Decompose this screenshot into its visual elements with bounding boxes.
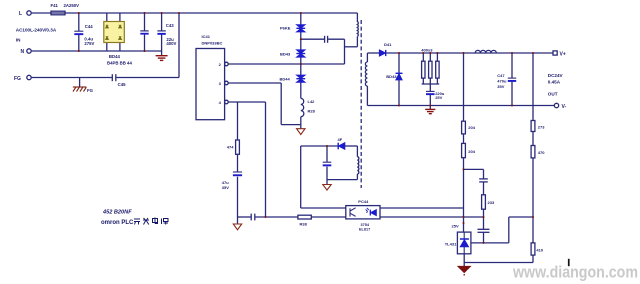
load resistors x3 <box>422 61 425 78</box>
svg-text:F41: F41 <box>51 3 59 8</box>
resistor right 470 <box>531 146 535 158</box>
capacitor film plates <box>140 31 148 35</box>
resistor right 410 <box>531 243 535 255</box>
svg-text:2: 2 <box>219 62 222 67</box>
svg-text:4: 4 <box>219 100 222 105</box>
ground stub under feedback line <box>237 217 239 224</box>
resistor R38 <box>298 215 311 219</box>
wire FG rail <box>32 77 112 79</box>
svg-text:275V: 275V <box>84 41 94 46</box>
capacitor C43 wires <box>161 13 163 31</box>
wire pin4 <box>228 101 265 103</box>
svg-text:TL431: TL431 <box>445 242 457 247</box>
capacitor C47 plates <box>508 78 516 82</box>
svg-text:4F: 4F <box>338 137 343 142</box>
wire L to fuse <box>32 12 52 14</box>
svg-text:BD44: BD44 <box>280 77 291 82</box>
svg-text:omron PLC: omron PLC <box>101 220 134 226</box>
V+ rail <box>367 52 379 54</box>
black mark <box>568 259 570 266</box>
ground triangle TL431 (solid) <box>458 266 470 272</box>
resistor R44 wires <box>237 102 239 140</box>
comp branch wires <box>464 168 484 170</box>
svg-text:2A250V: 2A250V <box>64 3 80 8</box>
resistor divider R2 <box>462 143 466 157</box>
capacitor 220u plates <box>426 91 435 95</box>
svg-text:PC44: PC44 <box>358 199 369 204</box>
terminal FG <box>27 75 31 79</box>
svg-text:C45: C45 <box>118 82 126 87</box>
resistor right 273 <box>531 121 535 132</box>
capacitor aux plates <box>323 162 332 166</box>
diode 4F (aux) <box>338 143 345 150</box>
transformer T1 primary <box>356 13 358 22</box>
TVS P6KE <box>296 25 305 32</box>
capacitor C47 wires <box>511 53 513 78</box>
load resistors x3 wires <box>422 53 424 61</box>
transformer secondary <box>366 53 368 62</box>
wire FG rail right <box>116 77 179 79</box>
svg-text:BD44: BD44 <box>109 54 121 59</box>
aux circuit wires <box>301 145 338 147</box>
bottom return wire <box>464 262 533 264</box>
capacitor series on feedback line <box>250 214 252 221</box>
capacitor C45 (Y-cap on FG line) <box>111 74 113 81</box>
svg-text:D41: D41 <box>384 42 392 47</box>
zener D43 (output) <box>396 73 403 80</box>
svg-text:233: 233 <box>488 200 495 205</box>
svg-text:P6KE: P6KE <box>280 26 291 31</box>
opto wires left <box>301 207 346 209</box>
svg-text:0.45A: 0.45A <box>548 80 561 85</box>
bridge BD44 pins <box>106 13 108 22</box>
zener D43 wires <box>398 53 400 73</box>
svg-text:FG: FG <box>87 88 94 93</box>
right column wires <box>532 53 534 121</box>
TL431 internals <box>460 232 469 254</box>
wire N rail <box>32 50 162 52</box>
svg-text:IN: IN <box>16 38 21 43</box>
tap wire to primary <box>345 46 358 48</box>
optocoupler PC44 box <box>346 206 380 219</box>
capacitor 220u wires <box>429 84 431 91</box>
svg-text:EL817: EL817 <box>359 228 370 232</box>
ground earth (220u) <box>425 109 435 113</box>
capacitor clamp <box>324 36 326 43</box>
pin 2 circle <box>225 62 229 66</box>
wire feedback vertical from pin4 <box>265 102 267 217</box>
svg-text:R28: R28 <box>308 108 316 113</box>
svg-text:DC24V: DC24V <box>548 73 564 78</box>
svg-text:FG: FG <box>14 76 21 82</box>
svg-text:OUT: OUT <box>548 92 558 97</box>
transformer core <box>360 20 362 188</box>
svg-text:474: 474 <box>227 145 234 150</box>
diode BD43 (clamp) <box>296 50 305 57</box>
wire FG ground stub <box>79 78 81 87</box>
aux cap wires <box>326 146 328 162</box>
V- rail <box>367 105 554 107</box>
resistor 233 <box>482 195 486 209</box>
ground earth (C43) <box>156 56 168 61</box>
svg-text:C44: C44 <box>85 24 93 29</box>
fuse F41 <box>51 11 65 15</box>
svg-text:204: 204 <box>468 149 475 154</box>
svg-text:204: 204 <box>468 125 475 130</box>
opto internals <box>350 208 356 217</box>
ground triangle (sense) <box>297 129 305 135</box>
svg-text:IC41: IC41 <box>202 34 211 39</box>
TL431 bottom wire <box>463 254 465 266</box>
svg-text:400x3: 400x3 <box>421 48 433 53</box>
svg-text:R38: R38 <box>300 222 308 227</box>
svg-text:N: N <box>21 49 25 55</box>
svg-text:C43: C43 <box>166 23 174 28</box>
terminal L <box>27 11 31 15</box>
svg-text:C47: C47 <box>497 73 505 78</box>
ref wire <box>471 242 509 244</box>
svg-text:www.diangon.com: www.diangon.com <box>512 263 638 282</box>
svg-text:35V: 35V <box>497 84 504 89</box>
capacitor C44 wires <box>78 13 80 31</box>
capacitor C43 plates <box>157 31 165 35</box>
node column clamp diodes <box>300 13 302 25</box>
comp cap 2 <box>478 228 490 230</box>
bridge rectifier BD44 <box>104 22 125 43</box>
ground triangle (aux) <box>323 185 331 191</box>
svg-text:BD43: BD43 <box>280 51 291 56</box>
clamp right vertical <box>344 39 346 64</box>
capacitor 47u plates <box>233 172 242 176</box>
svg-text:273: 273 <box>538 125 545 130</box>
comp cap 2 wires <box>483 217 485 229</box>
diode BD44 (clamp) <box>296 75 305 82</box>
svg-text:DNP033BC: DNP033BC <box>202 40 223 45</box>
comp cap 1 <box>479 178 488 180</box>
terminal V+ <box>553 51 557 55</box>
svg-text:470u: 470u <box>497 79 507 84</box>
pin 4 circle <box>225 100 229 104</box>
wire vertical top rail to FG <box>178 13 180 78</box>
clamp top wire with cap gap <box>301 38 324 40</box>
filter inductor L <box>475 50 496 53</box>
TL431 box <box>457 232 471 254</box>
svg-text:400V: 400V <box>166 41 176 46</box>
terminal N <box>27 49 31 53</box>
terminal V- <box>554 103 558 107</box>
svg-text:V-: V- <box>562 104 567 110</box>
capacitor C44 plates <box>74 31 83 35</box>
svg-text:BD43: BD43 <box>386 74 397 79</box>
svg-text:3: 3 <box>219 81 222 86</box>
svg-text:2: 2 <box>366 210 368 214</box>
svg-text:AC100L-240V/0.3A: AC100L-240V/0.3A <box>16 28 57 33</box>
sense inductor L42 <box>301 98 304 116</box>
wire top rail <box>65 12 357 14</box>
svg-text:V+: V+ <box>560 52 566 58</box>
diode D41 (output) <box>379 50 385 56</box>
ground chassis FG <box>73 87 87 92</box>
wire feedback bottom left <box>238 216 251 218</box>
svg-text:452 B20NF: 452 B20NF <box>102 210 132 216</box>
svg-text:25V: 25V <box>435 95 442 100</box>
svg-text:470: 470 <box>538 150 545 155</box>
svg-text:35V: 35V <box>222 185 229 190</box>
opto wires right <box>380 207 464 209</box>
ground triangle (feedback) <box>233 224 241 230</box>
svg-text:B4PB BB 44: B4PB BB 44 <box>107 61 132 66</box>
CJK 开关电源 approx strokes <box>134 218 168 225</box>
svg-text:3754: 3754 <box>361 223 370 227</box>
wire pin2 to clamp <box>228 63 344 65</box>
IC41 box <box>196 49 225 120</box>
svg-text:L42: L42 <box>308 99 316 104</box>
resistor divider R1 <box>462 121 466 134</box>
wire pin3 to sense node <box>228 82 281 84</box>
pin 3 circle <box>225 81 229 85</box>
capacitor 47u wires <box>237 177 239 217</box>
svg-text:25V: 25V <box>452 224 459 229</box>
divider column wires <box>463 53 465 121</box>
svg-text:L: L <box>19 11 22 17</box>
aux winding <box>356 146 358 157</box>
svg-text:410: 410 <box>536 248 543 253</box>
capacitor C42 wires (film cap) <box>144 13 146 31</box>
resistor R44 <box>236 140 240 154</box>
